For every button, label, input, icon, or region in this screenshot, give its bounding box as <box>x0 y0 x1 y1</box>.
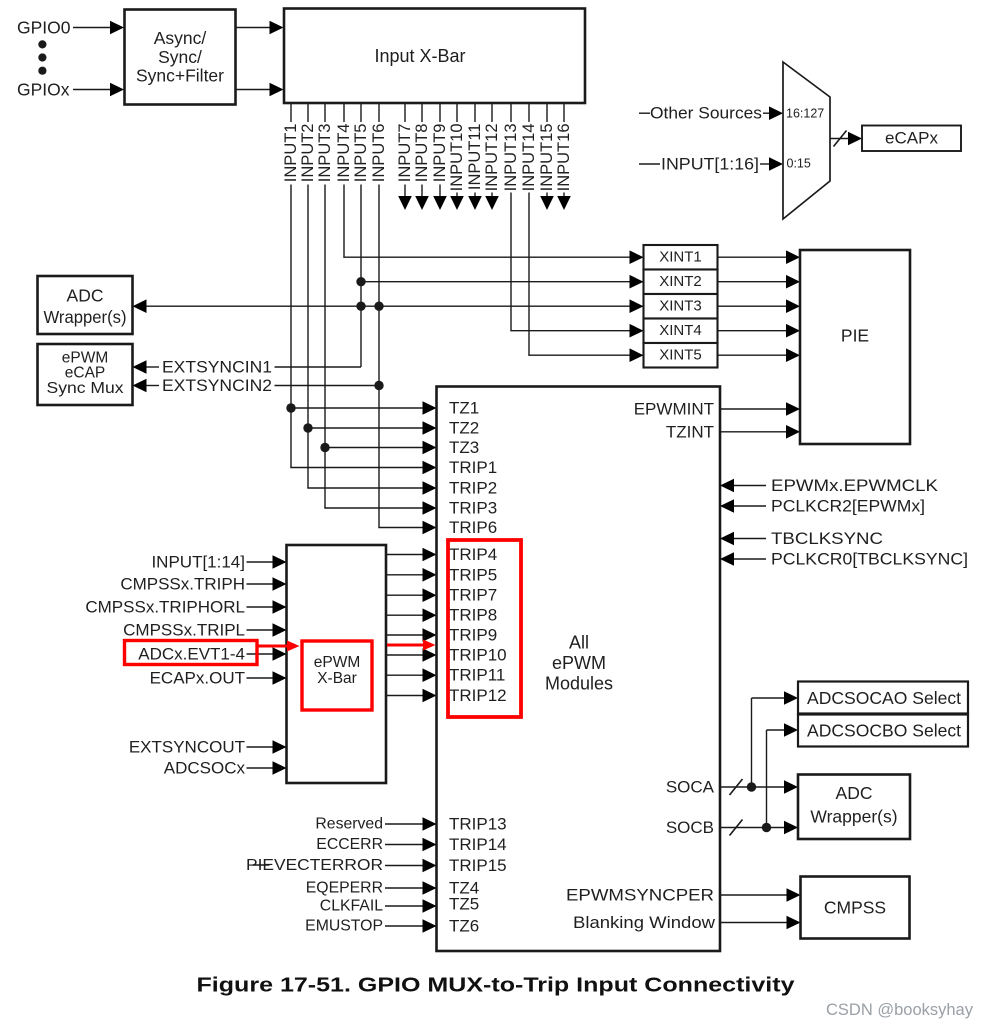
arrow into XINT4 <box>630 324 644 338</box>
wire ePWM X-Bar out TRIP10 <box>386 654 423 656</box>
wire INPUT14 vertical <box>528 193 530 356</box>
svg-text:TZ2: TZ2 <box>449 419 479 438</box>
wire INPUT13 vertical <box>510 193 512 331</box>
wire TBCLKSYNC <box>734 538 766 540</box>
svg-text:TRIP2: TRIP2 <box>449 479 497 498</box>
stray strike mark on PIEVECTERROR <box>253 864 270 866</box>
arrow ECAPx.OUT into ePWM X-Bar <box>273 671 287 685</box>
wire XINT1 to PIE <box>718 256 787 258</box>
wire EPWMx.EPWMCLK <box>734 485 766 487</box>
slash bus mark SOCA <box>730 779 743 795</box>
wire CMPSSx.TRIPL into ePWM X-Bar <box>247 629 273 631</box>
svg-text:SOCB: SOCB <box>666 818 714 837</box>
wire INPUT6 vertical <box>378 185 380 528</box>
svg-text:Async/: Async/ <box>154 28 207 48</box>
arrow into ADCSOCBO Select <box>784 723 798 737</box>
block All ePWM Modules <box>437 387 721 952</box>
wire INPUT7 stub from Input X-Bar <box>404 103 406 122</box>
wire EPWMINT to PIE <box>720 408 786 410</box>
wire XINT2 to PIE <box>718 281 787 283</box>
wire CMPSSx.TRIPH into ePWM X-Bar <box>247 583 273 585</box>
svg-text:TRIP15: TRIP15 <box>449 856 507 875</box>
svg-text:INPUT[1:16]: INPUT[1:16] <box>661 155 759 174</box>
svg-text:INPUT14: INPUT14 <box>520 124 538 192</box>
arrow INPUT8 down <box>415 196 429 210</box>
svg-text:ECAPx.OUT: ECAPx.OUT <box>150 669 245 688</box>
svg-text:TZ5: TZ5 <box>449 895 479 914</box>
arrow into TRIP14 <box>423 838 437 852</box>
block ePWM eCAP Sync Mux <box>38 344 133 405</box>
svg-text:ADCx.EVT1-4: ADCx.EVT1-4 <box>138 645 245 664</box>
svg-text:XINT3: XINT3 <box>659 298 702 315</box>
wire SOCB <box>720 827 784 829</box>
block ePWM X-Bar outer <box>287 545 387 783</box>
svg-text:XINT5: XINT5 <box>659 347 702 364</box>
wire INPUT11 lower segment <box>474 193 476 198</box>
svg-text:ADC: ADC <box>67 286 104 306</box>
wire INPUT10 lower segment <box>456 193 458 198</box>
arrow TBCLKSYNC into ePWM Modules <box>720 532 734 546</box>
svg-text:TZ1: TZ1 <box>449 399 479 418</box>
svg-text:TZ3: TZ3 <box>449 438 479 457</box>
svg-text:EXTSYNCIN1: EXTSYNCIN1 <box>162 358 272 377</box>
svg-text:PIE: PIE <box>841 326 869 346</box>
red highlight box ADCx.EVT1-4 <box>125 641 258 665</box>
wire to ADCSOCBO Select <box>767 729 785 731</box>
wire sync block to Input X-Bar lower <box>236 89 270 91</box>
svg-text:INPUT4: INPUT4 <box>335 124 353 183</box>
wire INPUT10 stub from Input X-Bar <box>456 103 458 122</box>
wire INPUT4 stub from Input X-Bar <box>343 103 345 122</box>
svg-text:Reserved: Reserved <box>315 816 383 833</box>
wire EXTSYNCIN2 from INPUT6 <box>275 385 380 387</box>
wire ADCx.EVT1-4 into ePWM X-Bar <box>247 653 273 655</box>
arrow into TRIP13 <box>423 817 437 831</box>
svg-text:TRIP3: TRIP3 <box>449 499 497 518</box>
wire INPUT12 stub from Input X-Bar <box>491 103 493 122</box>
red arrow ePWM X-Bar to TRIP list <box>387 640 436 651</box>
wire PIEVECTERROR to TRIP15 <box>385 865 423 867</box>
wire PCLKCR2[EPWMx] <box>734 505 766 507</box>
svg-text:TRIP8: TRIP8 <box>449 606 497 625</box>
arrow into TZ3 <box>423 441 437 455</box>
arrow into TRIP6 <box>423 521 437 535</box>
wire ePWM X-Bar out TRIP4 <box>386 554 423 556</box>
arrow CMPSSx.TRIPHORL into ePWM X-Bar <box>273 600 287 614</box>
svg-text:eCAPx: eCAPx <box>885 129 938 148</box>
arrow INPUT16 down <box>557 196 571 210</box>
arrow TRIP12 into ePWM Modules <box>423 689 437 703</box>
arrow XINT3 into PIE <box>786 299 800 313</box>
svg-text:ADCSOCx: ADCSOCx <box>164 759 246 778</box>
arrow GPIO0 into sync block <box>110 21 124 35</box>
wire XINT5 to PIE <box>718 354 787 356</box>
wire TZINT to PIE <box>720 431 786 433</box>
svg-text:XINT2: XINT2 <box>659 273 702 290</box>
label Other Sources lead dash <box>639 112 650 114</box>
arrow TRIP8 into ePWM Modules <box>423 608 437 622</box>
arrow SOCA into ADC Wrapper <box>784 780 798 794</box>
arrow EPWMINT into PIE <box>786 402 800 416</box>
svg-text:TRIP1: TRIP1 <box>449 458 497 477</box>
svg-text:XINT1: XINT1 <box>659 249 702 266</box>
arrow into TZ5 <box>423 899 437 913</box>
arrow ADCSOCx into ePWM X-Bar <box>273 761 287 775</box>
wire sync block to Input X-Bar upper <box>236 27 270 29</box>
wire TRIP6 <box>378 527 422 529</box>
svg-text:TRIP7: TRIP7 <box>449 586 497 605</box>
junction dot INPUT2/TZ2 <box>303 423 312 432</box>
svg-text:ADCSOCAO Select: ADCSOCAO Select <box>807 688 961 708</box>
wire ADCSOCx into ePWM X-Bar <box>247 767 273 769</box>
label INPUT[1:16] lead wire <box>639 163 660 165</box>
wire XINT3 to PIE <box>718 305 787 307</box>
svg-text:INPUT9: INPUT9 <box>431 124 449 183</box>
arrow XINT2 into PIE <box>786 275 800 289</box>
svg-text:TRIP5: TRIP5 <box>449 565 497 584</box>
wire EXTSYNCOUT into ePWM X-Bar <box>247 746 273 748</box>
arrow into XINT5 <box>630 348 644 362</box>
junction dot SOCB <box>762 823 771 832</box>
wire INPUT5 stub from Input X-Bar <box>360 103 362 122</box>
wire SOCA up to ADCSOCAO <box>751 698 753 787</box>
svg-text:EXTSYNCIN2: EXTSYNCIN2 <box>162 376 272 395</box>
arrow INPUT15 down <box>540 196 554 210</box>
svg-text:INPUT2: INPUT2 <box>299 124 317 183</box>
wire INPUT5 to XINT2 <box>361 281 630 283</box>
wire TZ1 <box>291 407 423 409</box>
slash bus mark on eCAPx wire <box>834 131 847 147</box>
block CMPSS <box>801 877 910 939</box>
block XINT2 <box>644 270 718 295</box>
wire EXTSYNCIN1 stub <box>147 366 160 368</box>
arrow PCLKCR0[TBCLKSYNC] into ePWM Modules <box>720 552 734 566</box>
svg-text:CSDN @booksyhay: CSDN @booksyhay <box>826 1001 974 1019</box>
wire EMUSTOP to TZ6 <box>385 925 423 927</box>
svg-text:INPUT10: INPUT10 <box>448 124 466 192</box>
wire INPUT2 stub from Input X-Bar <box>307 103 309 122</box>
svg-text:EXTSYNCOUT: EXTSYNCOUT <box>129 738 245 757</box>
wire INPUT4 to XINT1 <box>343 256 629 258</box>
arrow INPUT12 down <box>485 196 499 210</box>
block PIE <box>800 250 910 444</box>
wire TRIP2 <box>307 487 422 489</box>
block ADCSOCAO Select <box>798 682 968 714</box>
wire INPUT16 stub from Input X-Bar <box>563 103 565 122</box>
arrow into eCAPx <box>848 132 862 146</box>
block ADC Wrapper(s) left <box>38 276 133 334</box>
block XINT4 <box>644 319 718 344</box>
arrow into ADC Wrapper left <box>133 299 147 313</box>
svg-text:ADC: ADC <box>836 783 873 803</box>
arrow Other Sources into mux <box>769 106 783 120</box>
wire EXTSYNCIN2 stub <box>147 385 160 387</box>
wire INPUT[1:14] into ePWM X-Bar <box>247 561 273 563</box>
wire INPUT14 to XINT5 <box>528 354 629 356</box>
arrow Blanking Window into CMPSS <box>787 916 801 930</box>
wire INPUT15 lower segment <box>546 193 548 198</box>
wire INPUT8 stub from Input X-Bar <box>421 103 423 122</box>
svg-text:EQEPERR: EQEPERR <box>306 880 383 897</box>
arrow into ADC Wrapper left (net line) <box>147 305 630 307</box>
block XINT1 <box>644 245 718 270</box>
wire PCLKCR0[TBCLKSYNC] <box>734 558 766 560</box>
svg-text:Input X-Bar: Input X-Bar <box>374 46 465 66</box>
wire CLKFAIL to TZ5 <box>385 905 423 907</box>
wire ePWM X-Bar out TRIP8 <box>386 614 423 616</box>
wire Other Sources to mux <box>763 112 770 114</box>
svg-text:eCAP: eCAP <box>65 365 106 382</box>
svg-text:EPWMINT: EPWMINT <box>634 400 714 419</box>
wire to ADCSOCAO Select <box>752 697 785 699</box>
wire INPUT11 stub from Input X-Bar <box>474 103 476 122</box>
wire INPUT9 lower segment <box>439 185 441 198</box>
wire SOCB up to ADCSOCBO <box>766 730 768 828</box>
svg-text:INPUT16: INPUT16 <box>555 124 573 192</box>
arrow TZINT into PIE <box>786 425 800 439</box>
arrow EPWMx.EPWMCLK into ePWM Modules <box>720 479 734 493</box>
svg-text:TZ6: TZ6 <box>449 917 479 936</box>
wire ECAPx.OUT into ePWM X-Bar <box>247 677 273 679</box>
arrow INPUT11 down <box>468 196 482 210</box>
svg-text:X-Bar: X-Bar <box>317 670 357 687</box>
wire EQEPERR to TZ4 <box>385 887 423 889</box>
wire INPUT5 vertical <box>360 185 362 368</box>
wire INPUT2 vertical <box>307 185 309 489</box>
svg-text:CMPSSx.TRIPH: CMPSSx.TRIPH <box>120 575 245 594</box>
svg-text:TBCLKSYNC: TBCLKSYNC <box>771 529 883 548</box>
junction dot SOCA <box>747 782 756 791</box>
svg-text:ECCERR: ECCERR <box>316 836 383 853</box>
red highlight box TRIP4-TRIP12 <box>448 540 521 717</box>
arrow into TRIP1 <box>423 461 437 475</box>
arrow into XINT2 <box>630 275 644 289</box>
arrow into Input X-Bar lower <box>270 83 284 97</box>
arrow TRIP7 into ePWM Modules <box>423 588 437 602</box>
arrow into TZ6 <box>423 919 437 933</box>
svg-text:ePWM: ePWM <box>552 653 606 673</box>
wire Blanking Window to CMPSS <box>720 922 787 924</box>
svg-text:CMPSSx.TRIPHORL: CMPSSx.TRIPHORL <box>85 598 245 617</box>
arrow into TZ1 <box>423 401 437 415</box>
arrow CMPSSx.TRIPL into ePWM X-Bar <box>273 623 287 637</box>
svg-text:Sync/: Sync/ <box>158 47 202 67</box>
arrow CMPSSx.TRIPH into ePWM X-Bar <box>273 577 287 591</box>
svg-text:Wrapper(s): Wrapper(s) <box>810 807 897 827</box>
wire INPUT14 stub from Input X-Bar <box>528 103 530 122</box>
wire TRIP1 <box>290 467 422 469</box>
wire INPUT3 vertical <box>324 185 326 509</box>
block XINT3 <box>644 294 718 319</box>
junction dot INPUT6/EXTSYNCIN2 <box>374 381 383 390</box>
svg-text:INPUT12: INPUT12 <box>483 124 501 192</box>
junction dot INPUT3/TZ3 <box>320 443 329 452</box>
svg-text:TZINT: TZINT <box>666 422 714 441</box>
slash bus mark SOCB <box>730 820 743 836</box>
svg-text:GPIO0: GPIO0 <box>17 18 71 38</box>
arrow TRIP4 into ePWM Modules <box>423 548 437 562</box>
wire INPUT[1:16] to mux <box>760 163 770 165</box>
wire ePWM X-Bar out TRIP11 <box>386 674 423 676</box>
wire CMPSSx.TRIPHORL into ePWM X-Bar <box>247 606 273 608</box>
arrow into TRIP15 <box>423 859 437 873</box>
wire INPUT7 lower segment <box>404 185 406 198</box>
svg-text:Sync Mux: Sync Mux <box>47 380 124 397</box>
block ADC Wrapper(s) right <box>798 775 910 840</box>
arrow INPUT7 down <box>398 196 412 210</box>
arrow PCLKCR2[EPWMx] into ePWM Modules <box>720 499 734 513</box>
wire ePWM X-Bar out TRIP5 <box>386 574 423 576</box>
arrow TRIP5 into ePWM Modules <box>423 568 437 582</box>
wire INPUT8 lower segment <box>421 185 423 198</box>
svg-text:TRIP14: TRIP14 <box>449 835 507 854</box>
arrow into Input X-Bar upper <box>270 21 284 35</box>
wire INPUT13 to XINT4 <box>510 330 629 332</box>
arrow SOCB into ADC Wrapper <box>784 821 798 835</box>
arrow into XINT3 <box>630 299 644 313</box>
block Input X-Bar <box>284 9 585 104</box>
arrow into ADCSOCAO Select <box>784 691 798 705</box>
arrow INPUT[1:16] into mux <box>769 157 783 171</box>
junction dot INPUT6/XINT3 net <box>374 302 383 311</box>
wire INPUT1 vertical <box>290 185 292 468</box>
svg-text:INPUT5: INPUT5 <box>352 124 370 183</box>
mux trapezoid <box>783 62 830 219</box>
block Async/Sync/Sync+Filter <box>125 10 236 105</box>
svg-text:EPWMSYNCPER: EPWMSYNCPER <box>566 886 714 905</box>
block ADCSOCBO Select <box>798 715 968 747</box>
arrow TRIP9 into ePWM Modules <box>423 628 437 642</box>
red arrow ADCx.EVT1-4 to ePWM X-Bar <box>258 641 300 652</box>
svg-text:INPUT7: INPUT7 <box>396 124 414 183</box>
svg-text:Wrapper(s): Wrapper(s) <box>44 307 127 327</box>
arrow INPUT10 down <box>450 196 464 210</box>
arrow GPIOx into sync block <box>110 83 124 97</box>
svg-text:INPUT13: INPUT13 <box>502 124 520 192</box>
wire Reserved to TRIP13 <box>385 823 423 825</box>
wire INPUT9 stub from Input X-Bar <box>439 103 441 122</box>
block eCAPx <box>862 126 961 152</box>
junction dot INPUT5/XINT3 net <box>356 302 365 311</box>
arrow into TRIP3 <box>423 501 437 515</box>
wire GPIO0 to sync block <box>73 27 111 29</box>
svg-text:CMPSS: CMPSS <box>824 898 886 918</box>
svg-text:CLKFAIL: CLKFAIL <box>320 898 383 915</box>
svg-text:INPUT3: INPUT3 <box>316 124 334 183</box>
wire TZ2 <box>308 427 423 429</box>
wire ECCERR to TRIP14 <box>385 844 423 846</box>
arrow INPUT[1:14] into ePWM X-Bar <box>273 555 287 569</box>
svg-text:TRIP10: TRIP10 <box>449 646 507 665</box>
svg-text:XINT4: XINT4 <box>659 322 702 339</box>
svg-text:ePWM: ePWM <box>314 654 361 671</box>
arrow EXTSYNCIN1 into sync mux <box>133 360 147 374</box>
svg-text:Sync+Filter: Sync+Filter <box>136 66 224 86</box>
arrow into TZ4 <box>423 881 437 895</box>
wire INPUT15 stub from Input X-Bar <box>546 103 548 122</box>
arrow ADCx.EVT1-4 into ePWM X-Bar <box>273 647 287 661</box>
svg-text:TRIP13: TRIP13 <box>449 815 507 834</box>
arrow TRIP11 into ePWM Modules <box>423 668 437 682</box>
junction dot INPUT5/XINT2 <box>356 277 365 286</box>
svg-text:Blanking Window: Blanking Window <box>573 913 716 932</box>
wire ePWM X-Bar out TRIP9 <box>386 634 423 636</box>
svg-text:TRIP4: TRIP4 <box>449 545 497 564</box>
svg-text:CMPSSx.TRIPL: CMPSSx.TRIPL <box>123 621 245 640</box>
arrow XINT4 into PIE <box>786 324 800 338</box>
wire EPWMSYNCPER to CMPSS <box>720 894 787 896</box>
svg-text:TRIP11: TRIP11 <box>449 666 505 685</box>
wire EXTSYNCIN1 from INPUT5 <box>275 366 362 368</box>
svg-text:INPUT11: INPUT11 <box>466 124 484 191</box>
svg-text:PCLKCR0[TBCLKSYNC]: PCLKCR0[TBCLKSYNC] <box>771 550 968 569</box>
ellipsis dot 1 <box>38 40 46 48</box>
wire INPUT6 stub from Input X-Bar <box>378 103 380 122</box>
svg-text:GPIOx: GPIOx <box>17 80 70 100</box>
svg-text:INPUT6: INPUT6 <box>370 124 388 183</box>
arrow EXTSYNCOUT into ePWM X-Bar <box>273 740 287 754</box>
arrow XINT1 into PIE <box>786 250 800 264</box>
wire INPUT3 stub from Input X-Bar <box>324 103 326 122</box>
svg-text:TRIP12: TRIP12 <box>449 686 507 705</box>
svg-text:TRIP9: TRIP9 <box>449 626 497 645</box>
junction dot INPUT1/TZ1 <box>286 403 295 412</box>
svg-text:All: All <box>569 633 589 653</box>
svg-text:SOCA: SOCA <box>666 778 715 797</box>
svg-text:INPUT1: INPUT1 <box>282 124 300 183</box>
svg-text:0:15: 0:15 <box>787 156 811 170</box>
arrow EPWMSYNCPER into CMPSS <box>787 888 801 902</box>
arrow into TRIP2 <box>423 481 437 495</box>
wire ePWM X-Bar out TRIP12 <box>386 695 423 697</box>
svg-text:EPWMx.EPWMCLK: EPWMx.EPWMCLK <box>771 476 939 495</box>
arrow into XINT1 <box>630 250 644 264</box>
ellipsis dot 2 <box>38 53 46 61</box>
wire XINT4 to PIE <box>718 330 787 332</box>
wire SOCA <box>720 786 784 788</box>
arrow into TZ2 <box>423 421 437 435</box>
arrow XINT5 into PIE <box>786 348 800 362</box>
wire INPUT13 stub from Input X-Bar <box>510 103 512 122</box>
wire ePWM X-Bar out TRIP7 <box>386 594 423 596</box>
arrow INPUT9 down <box>433 196 447 210</box>
red label box ePWM X-Bar <box>302 641 372 710</box>
svg-text:TRIP6: TRIP6 <box>449 518 497 537</box>
svg-text:Figure 17-51. GPIO MUX-to-Trip: Figure 17-51. GPIO MUX-to-Trip Input Con… <box>197 974 796 997</box>
wire TZ3 <box>325 447 423 449</box>
svg-text:INPUT8: INPUT8 <box>413 124 431 183</box>
wire INPUT4 vertical <box>343 185 345 258</box>
arrow EXTSYNCIN2 into sync mux <box>133 379 147 393</box>
wire TRIP3 <box>324 507 422 509</box>
svg-text:Modules: Modules <box>545 673 613 693</box>
block XINT5 <box>644 343 718 368</box>
wire GPIOx to sync block <box>73 89 111 91</box>
wire INPUT16 lower segment <box>563 193 565 198</box>
svg-text:Other Sources: Other Sources <box>650 104 762 123</box>
wire INPUT12 lower segment <box>491 193 493 198</box>
svg-text:16:127: 16:127 <box>786 107 824 121</box>
ellipsis dot 3 <box>38 67 46 75</box>
svg-text:PCLKCR2[EPWMx]: PCLKCR2[EPWMx] <box>771 497 925 516</box>
svg-text:INPUT15: INPUT15 <box>538 124 556 192</box>
svg-text:EMUSTOP: EMUSTOP <box>305 918 383 935</box>
arrow TRIP10 into ePWM Modules <box>423 648 437 662</box>
svg-text:INPUT[1:14]: INPUT[1:14] <box>151 553 245 572</box>
svg-text:ADCSOCBO Select: ADCSOCBO Select <box>807 721 961 741</box>
wire INPUT1 stub from Input X-Bar <box>290 103 292 122</box>
wire mux to eCAPx <box>830 138 848 140</box>
